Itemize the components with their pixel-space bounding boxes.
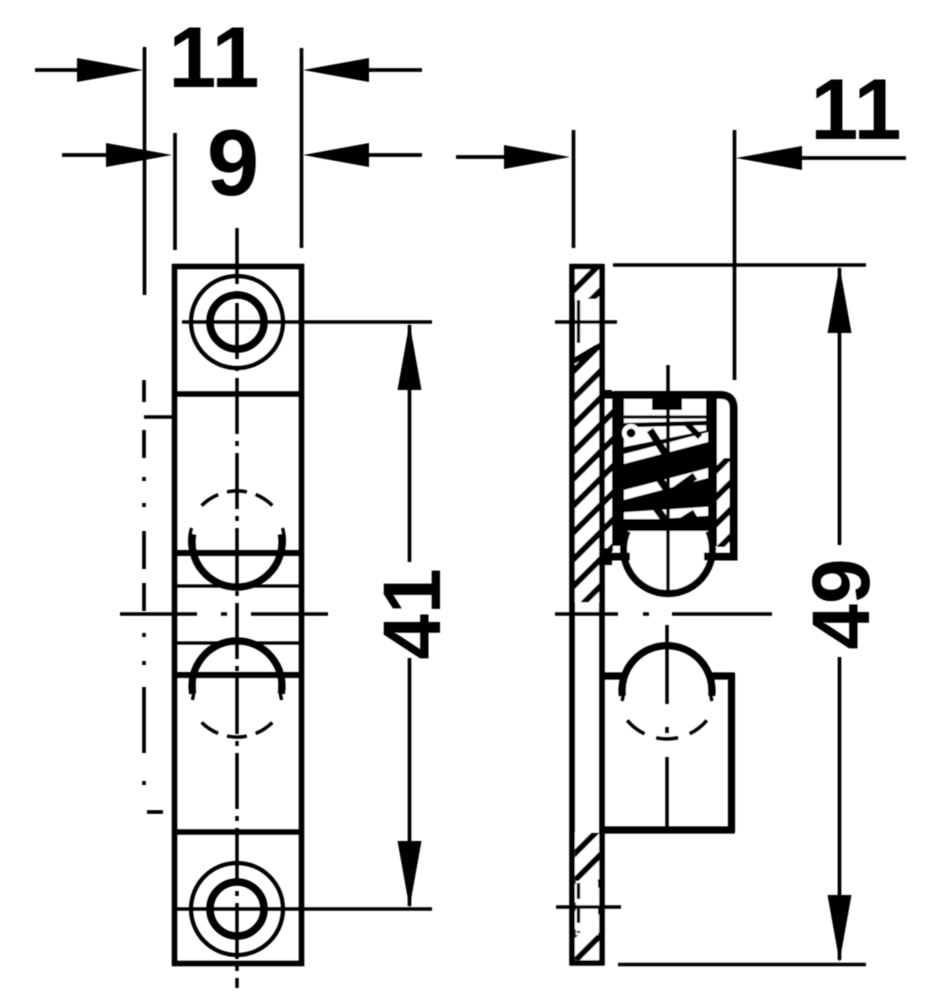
upper housing interior white	[613, 398, 731, 556]
countersink edge line	[574, 345, 601, 361]
divider line y=675	[172, 672, 304, 678]
extension line x=573.5 (side)	[572, 130, 576, 248]
spring assembly	[620, 424, 712, 528]
dimension 9 right arrow	[303, 143, 422, 167]
divider line y=832	[172, 829, 304, 835]
lower housing top edge left	[602, 672, 625, 679]
lower ball (side) thick arc	[622, 646, 712, 696]
bottom screw hole outer circle	[191, 863, 283, 955]
flange top edge	[570, 264, 604, 270]
horizontal center line y=614 (side view)	[555, 612, 772, 616]
vertical center line x=237	[235, 228, 239, 988]
flange hatched region top	[574, 266, 600, 300]
divider line y=553	[172, 550, 304, 556]
lower housing right wall	[728, 673, 735, 832]
lower ball thick arc	[192, 641, 282, 694]
horizontal center line y=614 (front view)	[120, 612, 328, 616]
upper housing outline	[601, 395, 734, 557]
upper ball thin side arc left	[190, 528, 193, 556]
lower housing center line	[665, 625, 669, 829]
flange left edge	[569, 264, 575, 966]
extension line x=734.5 (side)	[733, 130, 737, 380]
upper ball dashed arc	[202, 491, 273, 506]
thin line y=586	[177, 584, 299, 587]
svg-text:11: 11	[169, 10, 260, 106]
lower ball dashed arc	[202, 722, 273, 737]
upper housing right inner wall	[706, 399, 717, 546]
ball seat lip	[624, 519, 708, 531]
lower ball (side) thin side arc left	[621, 673, 624, 701]
bottom screw center tick (side)	[556, 905, 621, 909]
dimension 49 line lower segment	[838, 657, 842, 960]
plunger plate line	[613, 423, 708, 426]
flange bottom edge	[570, 960, 604, 966]
bottom screw hole inner circle	[210, 882, 264, 936]
plunger top line	[613, 415, 708, 418]
bottom screw hidden hole dashed line	[577, 883, 580, 933]
upper ball (side) white fill	[624, 531, 713, 593]
left hidden bracket chain line x=144	[144, 380, 163, 812]
upper housing bottom step	[600, 548, 612, 565]
divider line y=394	[172, 391, 304, 397]
flange hatched region bottom	[575, 833, 600, 960]
upper housing right hatch strip	[717, 458, 732, 547]
lower ball thin side arc left	[192, 672, 195, 700]
extension line right x=301.5	[300, 48, 304, 248]
dimension 49 arrowhead down	[828, 895, 852, 962]
upper mechanism center line through	[666, 404, 670, 594]
dimension 49 top reference line	[613, 263, 866, 267]
flange hatched region mid	[574, 346, 613, 602]
dimension 11 (side) left arrow	[456, 145, 570, 169]
top screw hole outer circle	[191, 276, 283, 368]
dimension 41 line lower segment	[408, 658, 412, 906]
dimension 11 (side) right arrow	[736, 146, 906, 170]
dimension 49 line upper segment	[838, 268, 842, 545]
spring dot white ring	[622, 424, 640, 442]
thin line y=643	[177, 641, 299, 644]
dimension 49 bottom reference line	[618, 963, 866, 967]
dimension 11 left arrow (front view)	[35, 58, 143, 82]
dimension 11 right arrow (front view)	[303, 58, 422, 82]
bottom screw crosshair horizontal / 41 bottom reference line	[177, 907, 432, 911]
dimension 41 arrowhead up	[398, 323, 422, 390]
upper housing left wall	[612, 399, 624, 546]
extension line x=174.5 for 9	[173, 133, 177, 250]
plate outline (front view)	[175, 267, 302, 964]
upper ball thick arc	[192, 534, 282, 587]
lower housing top edge right	[709, 672, 735, 679]
top notch	[652, 399, 682, 410]
svg-text:49: 49	[796, 558, 887, 649]
top screw crosshair horizontal / 41 top reference line	[182, 320, 432, 324]
lower ball (side) dashed arc	[627, 720, 707, 739]
dimension 41 line upper segment	[408, 325, 412, 562]
bottom screw hole white gap in flange	[576, 881, 598, 935]
top screw hole inner circle	[210, 295, 264, 349]
dimension 49 arrowhead up	[828, 266, 852, 333]
top screw hole section line	[577, 300, 580, 343]
upper ball thin side arc right	[282, 528, 285, 556]
top screw center tick (side)	[555, 320, 617, 324]
dimension 41 arrowhead down	[398, 841, 422, 908]
lower ball thin side arc right	[280, 672, 283, 700]
left hidden bracket horizontal edge	[144, 415, 175, 419]
lower housing bottom edge	[600, 826, 735, 833]
svg-text:41: 41	[367, 568, 458, 659]
flange right face	[599, 264, 605, 966]
spring dot	[627, 429, 636, 438]
upper mechanism center line above	[666, 365, 670, 394]
lower ball (side) thin side arc right	[710, 673, 713, 701]
upper ball (side) outline arc	[624, 531, 713, 593]
svg-text:9: 9	[207, 110, 259, 215]
svg-text:11: 11	[811, 62, 902, 158]
top screw hole white gap in flange	[576, 299, 600, 344]
extension line left x=144 (top)	[143, 47, 147, 295]
dimension 9 left arrow	[62, 143, 172, 167]
